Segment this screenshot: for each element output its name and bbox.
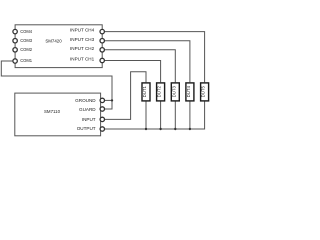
pin INPUT CH2	[100, 48, 104, 52]
DUT4 body	[186, 83, 194, 101]
DUT3 body	[171, 83, 179, 101]
wire GROUND pin to net junction	[104, 99, 112, 101]
pin INPUT CH1	[100, 58, 104, 62]
svg-text:INPUT: INPUT	[82, 117, 96, 122]
wire INPUT CH2 to DUT3 top	[104, 50, 175, 82]
DUT1 body	[142, 83, 150, 101]
svg-text:GUARD: GUARD	[79, 107, 96, 112]
junction DUT1/OUTPUT bus	[145, 128, 147, 130]
junction DUT4/OUTPUT bus	[189, 128, 191, 130]
svg-text:GROUND: GROUND	[75, 98, 96, 103]
junction DUT2/OUTPUT bus	[159, 128, 161, 130]
junction DUT3/OUTPUT bus	[174, 128, 176, 130]
svg-text:COM3: COM3	[20, 38, 33, 43]
svg-text:DUT4: DUT4	[186, 85, 191, 97]
svg-text:DUT1: DUT1	[142, 85, 147, 97]
pin COM2	[13, 48, 17, 52]
wire INPUT CH4 to DUT5 top	[104, 32, 204, 83]
svg-text:INPUT CH4: INPUT CH4	[70, 28, 95, 33]
pin INPUT CH3	[100, 39, 104, 43]
IC U1 SM7420 body	[15, 25, 102, 68]
svg-text:INPUT CH1: INPUT CH1	[70, 57, 95, 62]
wire INPUT CH1 to DUT2 top	[104, 61, 160, 83]
svg-text:COM2: COM2	[20, 47, 33, 52]
pin GROUND	[100, 98, 104, 102]
svg-text:COM4: COM4	[20, 29, 33, 34]
wire OUTPUT bus to DUT5 bottom	[104, 101, 204, 129]
IC U2 SM7110 body	[15, 93, 101, 136]
wire DUT4 bottom stub	[189, 101, 191, 129]
svg-text:SM7420: SM7420	[45, 39, 62, 44]
wire DUT1 bottom stub	[145, 101, 147, 129]
pin INPUT	[100, 117, 104, 121]
svg-text:DUT2: DUT2	[157, 85, 162, 97]
wire DUT2 bottom stub	[160, 101, 162, 129]
wire INPUT pin riser to DUT1 top	[104, 72, 146, 120]
wire INPUT CH3 to DUT4 top	[104, 41, 190, 82]
svg-text:OUTPUT: OUTPUT	[77, 126, 96, 131]
DUT5 body	[201, 83, 209, 101]
pin COM1	[13, 59, 17, 63]
svg-text:INPUT CH3: INPUT CH3	[70, 37, 95, 42]
svg-text:SM7110: SM7110	[44, 109, 61, 114]
pin OUTPUT	[100, 127, 104, 131]
pin INPUT CH4	[100, 29, 104, 33]
svg-text:DUT3: DUT3	[171, 85, 176, 97]
svg-text:DUT5: DUT5	[201, 85, 206, 97]
pin GUARD	[100, 107, 104, 111]
pin COM3	[13, 39, 17, 43]
pin COM4	[13, 29, 17, 33]
wire COM1 to GROUND/GUARD net	[1, 61, 112, 109]
junction COM1/GROUND net	[111, 99, 113, 101]
DUT2 body	[157, 83, 165, 101]
wire DUT3 bottom stub	[174, 101, 176, 129]
svg-text:INPUT CH2: INPUT CH2	[70, 46, 95, 51]
svg-text:COM1: COM1	[20, 58, 33, 63]
